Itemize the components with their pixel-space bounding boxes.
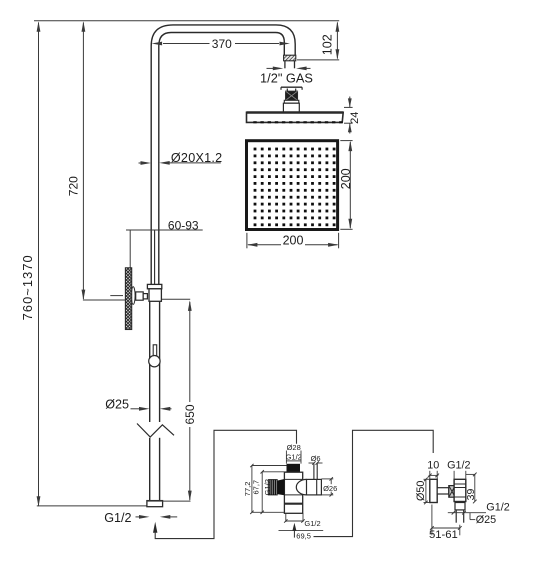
svg-text:39: 39: [465, 489, 477, 501]
svg-text:760~1370: 760~1370: [20, 254, 35, 320]
svg-text:G1/2: G1/2: [304, 519, 320, 528]
svg-text:370: 370: [212, 37, 232, 51]
svg-text:69,5: 69,5: [296, 531, 311, 540]
svg-text:1/2" GAS: 1/2" GAS: [260, 70, 313, 85]
svg-text:G1/2: G1/2: [286, 453, 302, 462]
svg-text:Ø50: Ø50: [415, 481, 427, 501]
svg-text:Ø28: Ø28: [287, 443, 301, 452]
svg-text:200: 200: [339, 168, 353, 189]
svg-text:Ø25: Ø25: [476, 514, 496, 526]
svg-text:650: 650: [183, 404, 197, 424]
svg-text:24: 24: [349, 112, 361, 124]
svg-text:G1/2: G1/2: [447, 460, 470, 472]
svg-text:G1/2: G1/2: [263, 479, 272, 495]
svg-text:Ø26: Ø26: [323, 484, 337, 493]
svg-text:77,2: 77,2: [243, 482, 252, 497]
svg-text:51-61: 51-61: [429, 529, 458, 541]
svg-text:67,7: 67,7: [252, 480, 261, 495]
svg-text:10: 10: [427, 459, 439, 471]
svg-text:102: 102: [320, 34, 334, 55]
svg-text:Ø6: Ø6: [311, 454, 321, 463]
svg-text:Ø20X1.2: Ø20X1.2: [171, 151, 222, 165]
svg-text:200: 200: [283, 233, 304, 247]
svg-text:G1/2: G1/2: [486, 501, 509, 513]
svg-text:60-93: 60-93: [168, 218, 199, 232]
svg-text:720: 720: [66, 176, 80, 196]
svg-text:Ø25: Ø25: [105, 398, 129, 412]
svg-text:G1/2: G1/2: [104, 511, 131, 525]
